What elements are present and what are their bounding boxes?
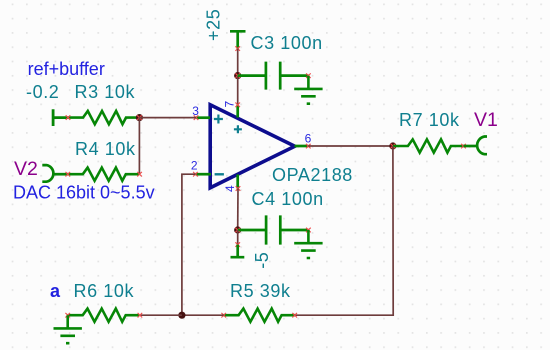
terminal bar at R3 left [53, 109, 68, 126]
junction node C [178, 312, 185, 319]
wire pin 4 down to node E [237, 189, 239, 231]
pin 6 lead [295, 145, 309, 148]
resistor R3 [68, 111, 140, 124]
wire V2 to R4 [52, 173, 68, 176]
resistor R4 [68, 168, 140, 181]
svg-text:2: 2 [191, 158, 198, 172]
junction node A [234, 72, 241, 79]
svg-text:C3 100n: C3 100n [251, 33, 323, 53]
svg-text:6: 6 [305, 132, 312, 146]
ground at C4 [294, 230, 322, 258]
port V2 [42, 165, 53, 182]
svg-text:R4 10k: R4 10k [75, 139, 136, 159]
wire +25 to node A [237, 49, 239, 76]
svg-text:-5: -5 [252, 252, 272, 269]
svg-text:+25: +25 [204, 9, 224, 41]
capacitor C3 [238, 62, 309, 90]
wire node E to -5 terminal [237, 230, 239, 245]
svg-text:V2: V2 [14, 158, 38, 180]
wire node B down to R4 [138, 118, 140, 175]
ground at C3 [294, 76, 322, 104]
svg-text:R3 10k: R3 10k [75, 82, 136, 102]
svg-text:4: 4 [223, 185, 237, 192]
opamp plus marker (input) [214, 115, 223, 124]
svg-text:R6 10k: R6 10k [74, 281, 135, 301]
power terminal +25 [230, 31, 246, 48]
feedback wire output to bottom [295, 146, 394, 315]
svg-text:OPA2188: OPA2188 [272, 165, 353, 185]
junction node D [389, 142, 396, 149]
svg-text:7: 7 [223, 101, 237, 108]
wire node B to pin 3 [139, 117, 196, 119]
svg-text:ref+buffer: ref+buffer [28, 59, 105, 79]
svg-text:3: 3 [192, 104, 199, 118]
pin x at C4 right [306, 228, 311, 233]
pin x at C3 right [306, 73, 311, 78]
wire node A to pin 7 [237, 76, 239, 105]
port V1 [477, 137, 487, 155]
capacitor C4 [238, 215, 309, 244]
junction node B [136, 114, 143, 121]
pin x at +25 stem [235, 46, 240, 51]
pin 2 lead [195, 173, 211, 176]
svg-text:R5 39k: R5 39k [230, 281, 291, 301]
svg-text:DAC 16bit 0~5.5v: DAC 16bit 0~5.5v [13, 183, 155, 203]
pin 7 lead [236, 105, 239, 118]
svg-text:R7 10k: R7 10k [399, 110, 460, 130]
resistor R5 [224, 309, 296, 322]
junction node E [234, 226, 241, 233]
pin 4 lead [236, 175, 239, 189]
svg-text:C4 100n: C4 100n [252, 189, 324, 209]
resistor R7 [393, 139, 465, 152]
svg-text:-0.2: -0.2 [26, 82, 59, 102]
wire R7 to V1 [464, 145, 479, 148]
svg-text:V1: V1 [474, 109, 498, 131]
wire R6 to node C [140, 314, 182, 316]
wire node C to R5 [182, 314, 224, 316]
op-amp U1 OPA2188 [210, 105, 295, 188]
pin 3 lead [196, 116, 210, 119]
wire pin 6 to node D [308, 145, 393, 147]
wire pin 2 elbow down [182, 174, 196, 315]
opamp plus marker (supply) [234, 125, 242, 133]
opamp minus marker [215, 173, 224, 175]
power terminal -5 [231, 245, 245, 258]
ground at R6 [53, 315, 81, 343]
svg-text:a: a [50, 281, 61, 301]
resistor R6 [68, 309, 140, 322]
